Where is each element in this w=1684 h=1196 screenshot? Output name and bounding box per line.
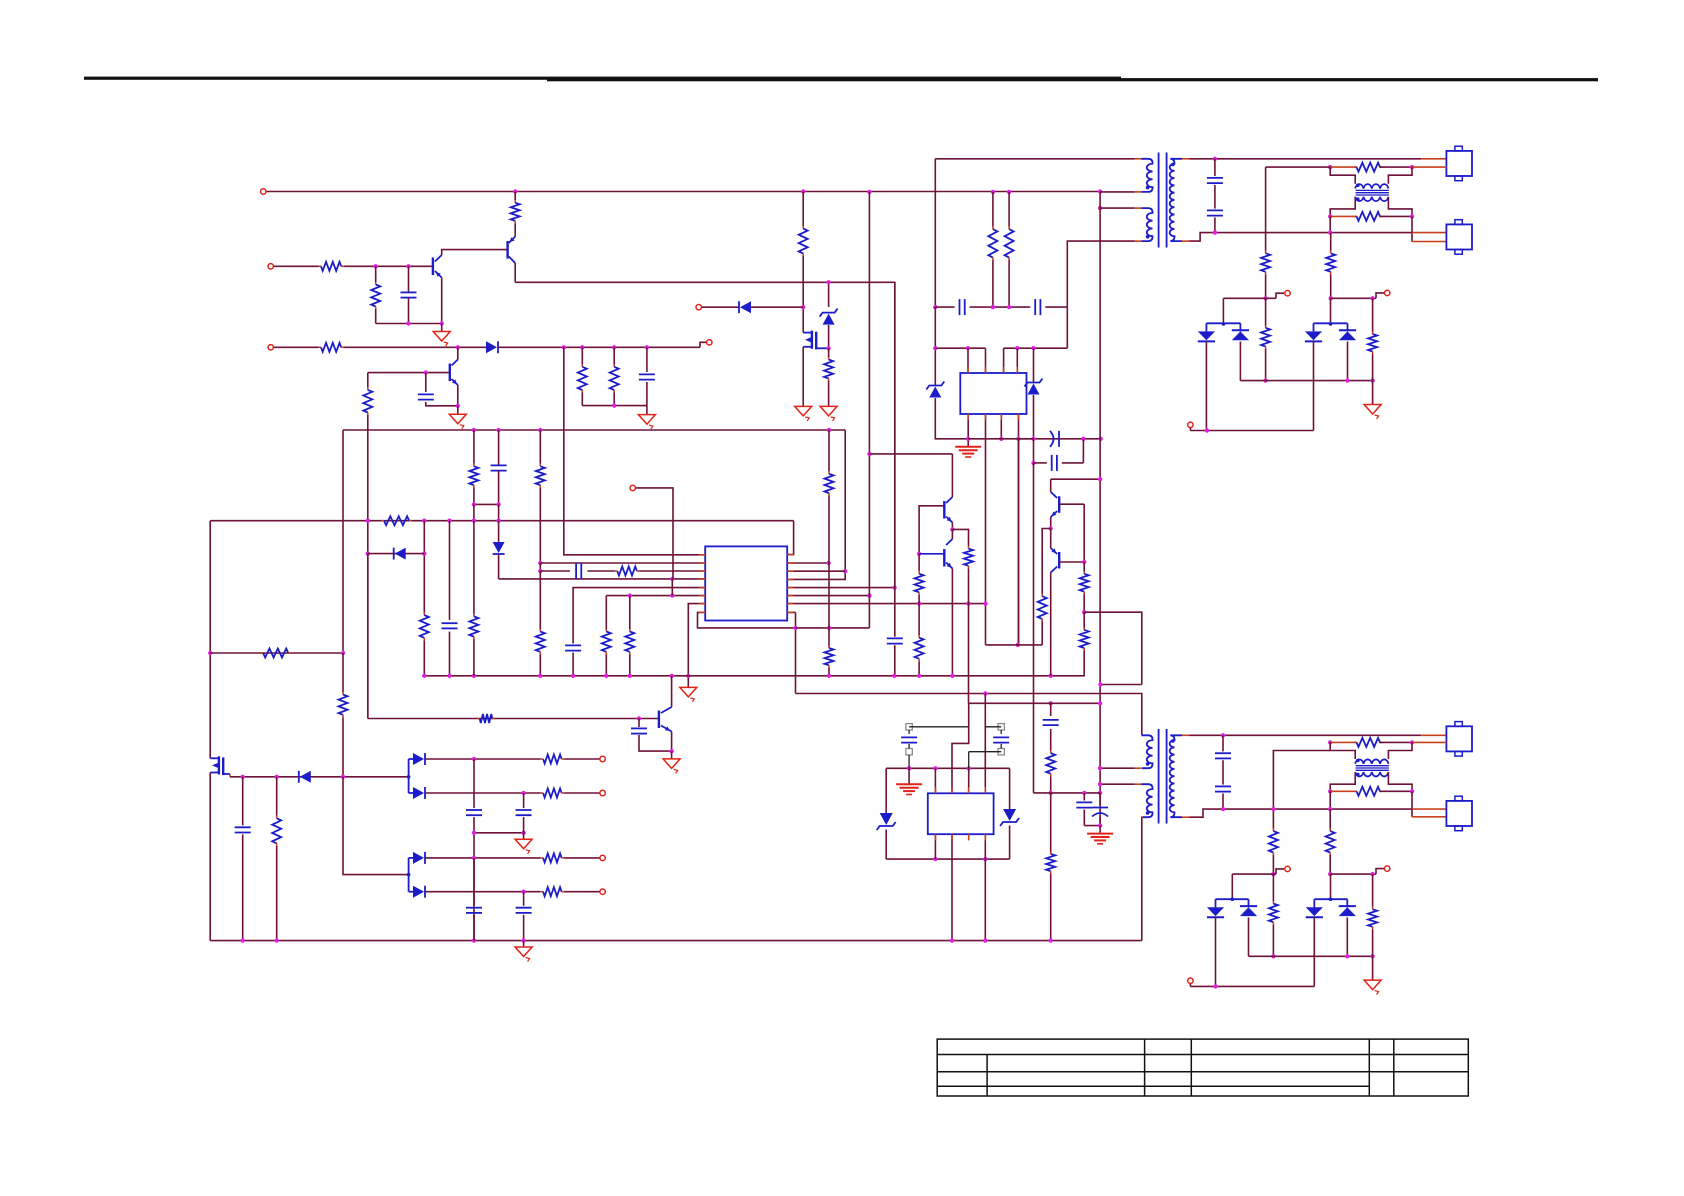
- resistor R4 (series input 2): [319, 343, 344, 352]
- phase dot FL2a: [1356, 759, 1360, 763]
- diode D1 (series): [486, 341, 498, 353]
- node row520/C10: [496, 519, 500, 523]
- wire T1 sec bottom lead: [1182, 233, 1412, 242]
- node row704/x1100: [1098, 701, 1102, 705]
- resistor R21: [420, 613, 429, 641]
- table line v3: [1144, 1039, 1146, 1096]
- node T1 w2 lead: [1098, 206, 1102, 210]
- zener ZD3: [1025, 379, 1043, 395]
- node bus/Q6col: [670, 674, 674, 678]
- wire Rsnub2 drop: [1008, 192, 1010, 227]
- node row439/ZD3: [1031, 437, 1035, 441]
- transistor Q2 emitter slant: [435, 271, 442, 278]
- wire x524 capB down: [523, 817, 525, 833]
- node bus/LC: [1049, 674, 1053, 678]
- wire R38 to row645: [1041, 621, 1043, 645]
- wire D17 to row956: [1346, 917, 1348, 956]
- wire Q3 collector drop: [457, 347, 459, 359]
- conn lead red 1: [1421, 158, 1446, 160]
- wire IC1 pin b4 drop: [1018, 414, 1020, 645]
- phase dot FL1b: [1356, 197, 1360, 201]
- node bus/R19: [538, 674, 542, 678]
- node bus/R27: [917, 674, 921, 678]
- wire row454: [869, 453, 952, 455]
- resistor R22 (pinC series): [615, 567, 640, 576]
- node row347/Q3: [456, 345, 460, 349]
- wire drive row 2 b: [344, 346, 486, 348]
- node x869/row454: [867, 452, 871, 456]
- node x540/pinC: [538, 569, 542, 573]
- node row430/x829: [827, 428, 831, 432]
- wire coil4 lead a: [1330, 790, 1357, 792]
- transistor Q5 emitter slant: [946, 563, 952, 569]
- wire ground stem 3: [457, 406, 459, 414]
- node choke2 coil1 left: [1328, 740, 1332, 744]
- node caps-row/R10: [991, 305, 995, 309]
- node row703/LC: [1049, 701, 1053, 705]
- node Q4e/Q5c: [950, 527, 954, 531]
- wire x1266 drop b: [1265, 274, 1267, 298]
- capacitor C13: [565, 645, 581, 650]
- wire ground stem 2: [646, 406, 648, 415]
- wire C16 drop: [242, 777, 244, 826]
- resistor R5: [578, 347, 587, 405]
- wire x795 drop: [795, 612, 797, 693]
- ground G7: [1364, 405, 1381, 420]
- capacitor C18: [516, 810, 532, 815]
- node row874/R44: [1370, 872, 1374, 876]
- wire row381: [1240, 380, 1372, 382]
- wire gate diode row b: [751, 306, 803, 308]
- wire T2 w1 bottom lead: [1100, 767, 1134, 769]
- wire row858 to J12: [564, 857, 599, 859]
- resistor R40: [1046, 793, 1055, 941]
- resistor R26: [825, 646, 834, 668]
- node loop bottom left: [1031, 461, 1035, 465]
- transistor Q8 emitter slant: [1051, 548, 1058, 554]
- wire R28 to r7: [968, 568, 970, 603]
- wire x1266 drop a: [1265, 167, 1267, 251]
- resistor R36: [541, 887, 565, 896]
- wire C1 drop: [408, 266, 410, 292]
- resistor R43: [1326, 829, 1335, 855]
- conn lead red 6: [1412, 741, 1446, 743]
- resistor R1: [511, 200, 520, 223]
- transistor Q3 emitter slant: [452, 379, 458, 385]
- zener ZD1: [820, 309, 838, 325]
- wire R8 to gate node: [802, 256, 804, 333]
- transistor Q3 base bar: [449, 364, 451, 382]
- wire x829 upper chain: [825, 430, 834, 563]
- node row504 a: [472, 502, 476, 506]
- wire loop right side: [1082, 439, 1084, 463]
- wire x540 seg: [539, 563, 541, 571]
- choke FL1 lower winding: [1355, 197, 1388, 201]
- wire drive row 2 a: [274, 346, 319, 348]
- wire M2 to x210: [209, 773, 211, 941]
- wire x1100 seg a: [1099, 192, 1101, 208]
- node row956/R44: [1370, 954, 1374, 958]
- node row348/IC1 pin t1: [966, 346, 970, 350]
- ground G11 (F): [515, 947, 532, 962]
- capacitor C14: [887, 638, 903, 643]
- wire diode tee 3: [1216, 899, 1249, 907]
- wire IC right r6: [787, 595, 869, 597]
- wire pinC row c: [639, 570, 705, 572]
- wire D3 to row423: [1205, 342, 1207, 431]
- table frame: [937, 1039, 1468, 1096]
- node x1084/row612: [1082, 610, 1086, 614]
- table line v5: [1368, 1039, 1370, 1096]
- wire row479: [1051, 478, 1100, 480]
- wire choke2 lower right link: [1388, 772, 1412, 791]
- wire C3 to row406: [426, 402, 458, 406]
- ground G9: [663, 759, 680, 774]
- node row406/gnd: [456, 404, 460, 408]
- connector CN2: [1446, 220, 1472, 255]
- terminal J8: [1188, 422, 1193, 427]
- mosfet M1 channel bar: [815, 332, 817, 350]
- node row347/C2: [645, 345, 649, 349]
- wire IC1 pin t4 stub: [1016, 348, 1018, 373]
- wire LC mid: [1050, 729, 1052, 751]
- wire Q1 collector down: [514, 263, 516, 282]
- wire top rail y=191.5: [267, 191, 1101, 193]
- node row653/x343: [341, 651, 345, 655]
- wire IC right r7: [787, 603, 985, 605]
- wire ZD3 to row439: [1033, 395, 1035, 439]
- wire IC1 pin t3 drop: [1003, 348, 1005, 373]
- mosfet M1 gate bracket: [803, 331, 812, 349]
- node row439/pin b1: [966, 437, 970, 441]
- wire R1 top lead: [514, 192, 516, 201]
- conn lead red 4: [1412, 241, 1446, 243]
- wire x968 drop to row703: [968, 604, 970, 704]
- wire row704: [969, 702, 1100, 704]
- wire zener chain top: [828, 282, 830, 307]
- wire diode row 776.8: [230, 776, 409, 778]
- conn lead red 2: [1412, 166, 1446, 168]
- node row999/D14: [1213, 984, 1217, 988]
- transistor Q8 collector slant: [1051, 567, 1058, 573]
- ic U2 pin stubs: [699, 555, 793, 613]
- node base3/C3: [424, 370, 428, 374]
- node row405/R6: [612, 403, 616, 407]
- wire row298 left: [1223, 297, 1276, 299]
- resistor R29: [477, 714, 495, 723]
- wire x1018 long: [1018, 439, 1020, 645]
- diode D5 (down): [1305, 331, 1322, 341]
- node r6/x869: [867, 593, 871, 597]
- wire row684: [1100, 684, 1141, 686]
- node frame/blk: [907, 766, 911, 770]
- node tee1: [1222, 322, 1226, 326]
- wire R7 drop: [367, 373, 369, 388]
- wire D16 to row999: [1313, 917, 1315, 986]
- black link S1: [909, 727, 969, 734]
- node x1273/row874: [1271, 872, 1275, 876]
- node row347/x564: [562, 345, 566, 349]
- node pinE/x630: [628, 593, 632, 597]
- resistor R11: [1005, 227, 1014, 261]
- node x1273/row956: [1271, 954, 1275, 958]
- transistor Q4 collector slant: [946, 497, 952, 503]
- wire row693: [796, 694, 1142, 736]
- transformer T1 primary w1: [1141, 159, 1152, 192]
- wire x1331 drop a: [1330, 233, 1332, 251]
- resistor R41: [1269, 829, 1278, 855]
- node row430/R16: [472, 428, 476, 432]
- resistor R33: [541, 755, 565, 764]
- table line v4: [1190, 1039, 1192, 1096]
- wire caps row b: [970, 306, 993, 308]
- capacitor C3: [418, 394, 434, 399]
- wire T1 sec top red stub: [1182, 158, 1190, 160]
- wire row874 right: [1330, 873, 1376, 875]
- node choke1 coil1 right: [1410, 165, 1414, 169]
- wire pinF chain: [573, 588, 705, 644]
- wire x474 to bus seg: [469, 521, 478, 676]
- node row439/x1100: [1099, 437, 1103, 441]
- wire IC1 pin b3 stub: [1000, 414, 1002, 439]
- wire IC2 frame bottom: [886, 858, 1009, 860]
- node x1266/row298: [1263, 296, 1267, 300]
- choke FL1 upper winding: [1355, 184, 1388, 188]
- diode D12: [409, 852, 425, 864]
- node bus/R16b: [472, 674, 476, 678]
- wire row874 left step: [1276, 869, 1284, 874]
- wire row793 to J11: [564, 792, 599, 794]
- wire D6 to row381: [1347, 342, 1349, 381]
- wire tee2 stub: [1330, 298, 1332, 323]
- diode D4 (up): [1232, 330, 1249, 340]
- wire Q8 collector long: [1050, 573, 1052, 676]
- node top-rail/T1 primary: [1098, 189, 1102, 193]
- node bus/x450: [447, 674, 451, 678]
- wire choke2 lower left link: [1330, 772, 1355, 791]
- wire C2 drop: [646, 347, 648, 372]
- op-amp U1 (opto/controller): [960, 373, 1026, 414]
- wire T2 w1 bottom red stub: [1135, 767, 1142, 769]
- resistor R44: [1368, 874, 1377, 956]
- wire Q7 collector drop: [1050, 479, 1052, 492]
- wire base row 1 left: [274, 265, 319, 267]
- transistor Q1 emitter slant: [509, 237, 515, 244]
- wire x474 capA chain: [473, 759, 475, 808]
- wire row348 seg2: [1004, 347, 1068, 349]
- wire row298 left step: [1276, 293, 1284, 298]
- table line v6: [1393, 1039, 1395, 1096]
- transistor Q3 collector slant: [452, 360, 458, 366]
- wire cap stack b: [1214, 185, 1216, 209]
- phase dot FL2b: [1356, 773, 1360, 777]
- node row809/choke: [1328, 807, 1332, 811]
- terminal J13: [600, 889, 605, 894]
- transformer T2 secondary: [1170, 735, 1182, 817]
- node row858/x474: [472, 856, 476, 860]
- node pinE/x672: [670, 593, 674, 597]
- node x368/row553: [366, 551, 370, 555]
- wire x919 R chain: [915, 554, 924, 604]
- wire IC2 frame right: [1009, 768, 1011, 809]
- wire x524 capD down: [523, 915, 525, 941]
- node row735/cap stack: [1221, 733, 1225, 737]
- wire IC right r3: [787, 570, 845, 572]
- wire row718: [368, 718, 659, 720]
- diode D16 (down): [1306, 907, 1323, 917]
- resistor R10: [988, 227, 997, 261]
- wire ground stem 1: [441, 324, 443, 332]
- wire J8 stub: [1189, 428, 1191, 431]
- wire R10 to caps row: [992, 260, 994, 307]
- wire choke1 to row232: [1329, 216, 1331, 232]
- wire R1 to Q_c emitter: [514, 223, 516, 236]
- net square S3: [998, 724, 1004, 730]
- capacitor C11: [442, 623, 458, 628]
- wire C15 drop: [638, 719, 640, 728]
- capacitor C8: [1207, 178, 1223, 183]
- wire C3 drop: [425, 373, 427, 392]
- wire row430: [343, 429, 845, 431]
- inductor FL1b: [1354, 212, 1383, 221]
- wire x935 top: [934, 159, 936, 307]
- capacitor C5: [1035, 299, 1040, 315]
- capacitor C19: [466, 908, 482, 913]
- ground G1 (F): [433, 332, 450, 347]
- terminal J5 (gate drive in): [696, 305, 701, 310]
- node row348/IC1 pin t4: [1015, 346, 1019, 350]
- diode D8 (down): [493, 542, 505, 554]
- wire row956: [1249, 955, 1373, 957]
- terminal J7: [1385, 290, 1390, 295]
- node row381/D6: [1345, 378, 1349, 382]
- wire x1331 drop b: [1330, 274, 1332, 298]
- node row777/x343: [341, 775, 345, 779]
- conn lead red 8: [1412, 816, 1446, 818]
- wire row874 right step: [1376, 869, 1384, 875]
- wire coil3 lead a: [1330, 741, 1357, 743]
- wire IC right r2: [787, 562, 828, 564]
- node x845/r3: [843, 569, 847, 573]
- wire Q6 emitter down: [671, 732, 673, 752]
- wire row759 to J10: [564, 758, 599, 760]
- wire IC bottom pin1 chain: [688, 604, 705, 688]
- wire Q5 emitter to bus: [951, 569, 953, 676]
- transistor Q5 base bar: [943, 549, 945, 567]
- ground G6 (earth): [955, 447, 981, 457]
- node row298/R15: [1370, 296, 1374, 300]
- node row833/gnd: [521, 831, 525, 835]
- wire gnd stem B: [523, 941, 525, 947]
- transformer T1 primary w2: [1141, 208, 1152, 241]
- wire row347 step to J4: [700, 342, 706, 347]
- wire caps row a: [935, 306, 954, 308]
- wire R11 down: [1008, 260, 1010, 307]
- node choke1 coil1 left: [1328, 165, 1332, 169]
- node rowD/x672: [670, 577, 674, 581]
- wire row439: [968, 438, 1100, 440]
- phase dot T1 w2: [1146, 235, 1150, 239]
- wire row645: [986, 644, 1043, 646]
- ground G10 (F): [515, 839, 532, 854]
- wire rowD left: [499, 578, 706, 580]
- node gate/diode row: [801, 305, 805, 309]
- capacitor C7: [1052, 455, 1057, 471]
- wire Q8 emitter link: [1050, 529, 1052, 549]
- resistor R2 (base series 1): [319, 262, 344, 271]
- wire IC2 frame top: [886, 767, 1009, 769]
- wire D4 to row381: [1239, 342, 1241, 381]
- wire pinC row b: [587, 570, 614, 572]
- net square S4: [998, 749, 1004, 755]
- resistor R3 (base pulldown 1): [371, 282, 380, 309]
- wire caps row c: [993, 306, 1030, 308]
- node row423/D3: [1205, 428, 1209, 432]
- node bus/C14: [892, 674, 896, 678]
- wire gnd stem Q6: [671, 751, 673, 759]
- wire choke1 lower left link: [1330, 197, 1355, 217]
- node x1018/row645: [1016, 643, 1020, 647]
- node base1/C1: [406, 264, 410, 268]
- wire x424 chain: [423, 521, 425, 676]
- terminal J10: [600, 756, 605, 761]
- wire C10 chain: [491, 430, 507, 504]
- wire S2 gnd stem: [908, 768, 910, 784]
- wire x210 upper: [209, 521, 211, 759]
- node top-rail/col-a: [867, 190, 871, 194]
- wire Q1 base to Q2 collector: [442, 250, 507, 255]
- wire cap stack2 a: [1222, 735, 1224, 751]
- ground G5: [820, 406, 837, 421]
- wire coil3 lead b: [1379, 741, 1412, 743]
- wire pinB row: [540, 562, 705, 564]
- wire R19 to bus: [539, 654, 541, 676]
- node row439/pin b3: [999, 437, 1003, 441]
- diode D7 (cathode left): [394, 548, 406, 560]
- diode D11: [409, 787, 425, 799]
- wire R39 to row793: [1050, 776, 1052, 793]
- wire R3 to row: [375, 309, 377, 324]
- ic U2 (PWM controller): [705, 546, 787, 620]
- diode D14 (down): [1207, 907, 1224, 917]
- wire LC lower drop: [1050, 703, 1052, 716]
- node row430/R18: [538, 428, 542, 432]
- transistor Q8 base bar: [1058, 552, 1060, 569]
- node bus/x829: [827, 674, 831, 678]
- resistor R28: [964, 546, 973, 568]
- node bus/R24: [628, 674, 632, 678]
- diode D10: [409, 753, 425, 765]
- wire gnd stem block1: [1372, 381, 1374, 405]
- wire coil2 lead a: [1330, 215, 1357, 217]
- node LC/row793: [1049, 791, 1053, 795]
- wire emitter row y=323.5: [376, 323, 442, 325]
- node row520/x368: [366, 519, 370, 523]
- black link S3: [985, 727, 1001, 734]
- diode D3 (down): [1198, 331, 1215, 341]
- wire row439 ext left: [1018, 438, 1034, 440]
- wire C13 to bus: [572, 653, 574, 676]
- node row439/pin b4: [1016, 437, 1020, 441]
- wire pinE row: [606, 595, 705, 597]
- node row718/C15: [637, 716, 641, 720]
- mosfet M1 source stub: [816, 347, 828, 349]
- terminal J3 (drive input 2): [268, 345, 273, 350]
- node top-rail/R-mosfet: [801, 189, 805, 193]
- capacitor C6 (pol): [1050, 431, 1059, 447]
- wire R24 to bus: [629, 654, 631, 676]
- wire x935 zener drop: [934, 307, 936, 385]
